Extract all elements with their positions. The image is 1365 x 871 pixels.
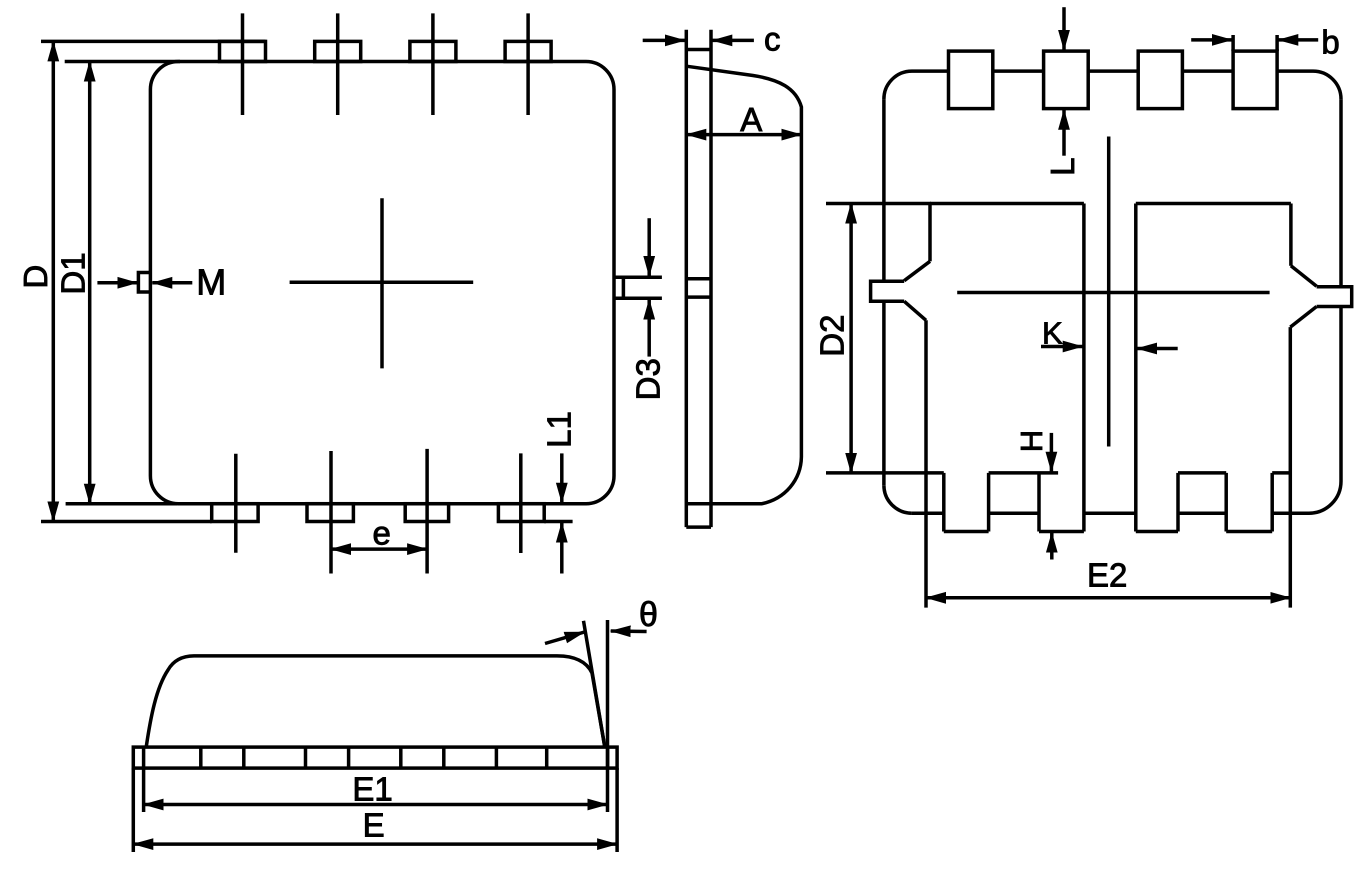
svg-text:M: M (196, 262, 226, 303)
svg-text:E: E (363, 807, 385, 844)
svg-text:e: e (373, 514, 391, 551)
svg-text:E2: E2 (1087, 557, 1127, 594)
svg-text:D2: D2 (814, 315, 851, 357)
svg-text:c: c (764, 21, 781, 58)
svg-text:L: L (1044, 158, 1081, 176)
svg-text:H: H (1014, 430, 1049, 452)
svg-text:K: K (1042, 315, 1063, 350)
svg-text:b: b (1321, 23, 1339, 60)
svg-text:θ: θ (639, 596, 658, 634)
svg-text:D3: D3 (629, 358, 666, 400)
svg-text:L1: L1 (540, 411, 577, 448)
svg-text:D: D (17, 265, 54, 289)
svg-text:A: A (740, 101, 762, 138)
svg-text:E1: E1 (352, 770, 392, 807)
svg-text:D1: D1 (55, 252, 92, 294)
